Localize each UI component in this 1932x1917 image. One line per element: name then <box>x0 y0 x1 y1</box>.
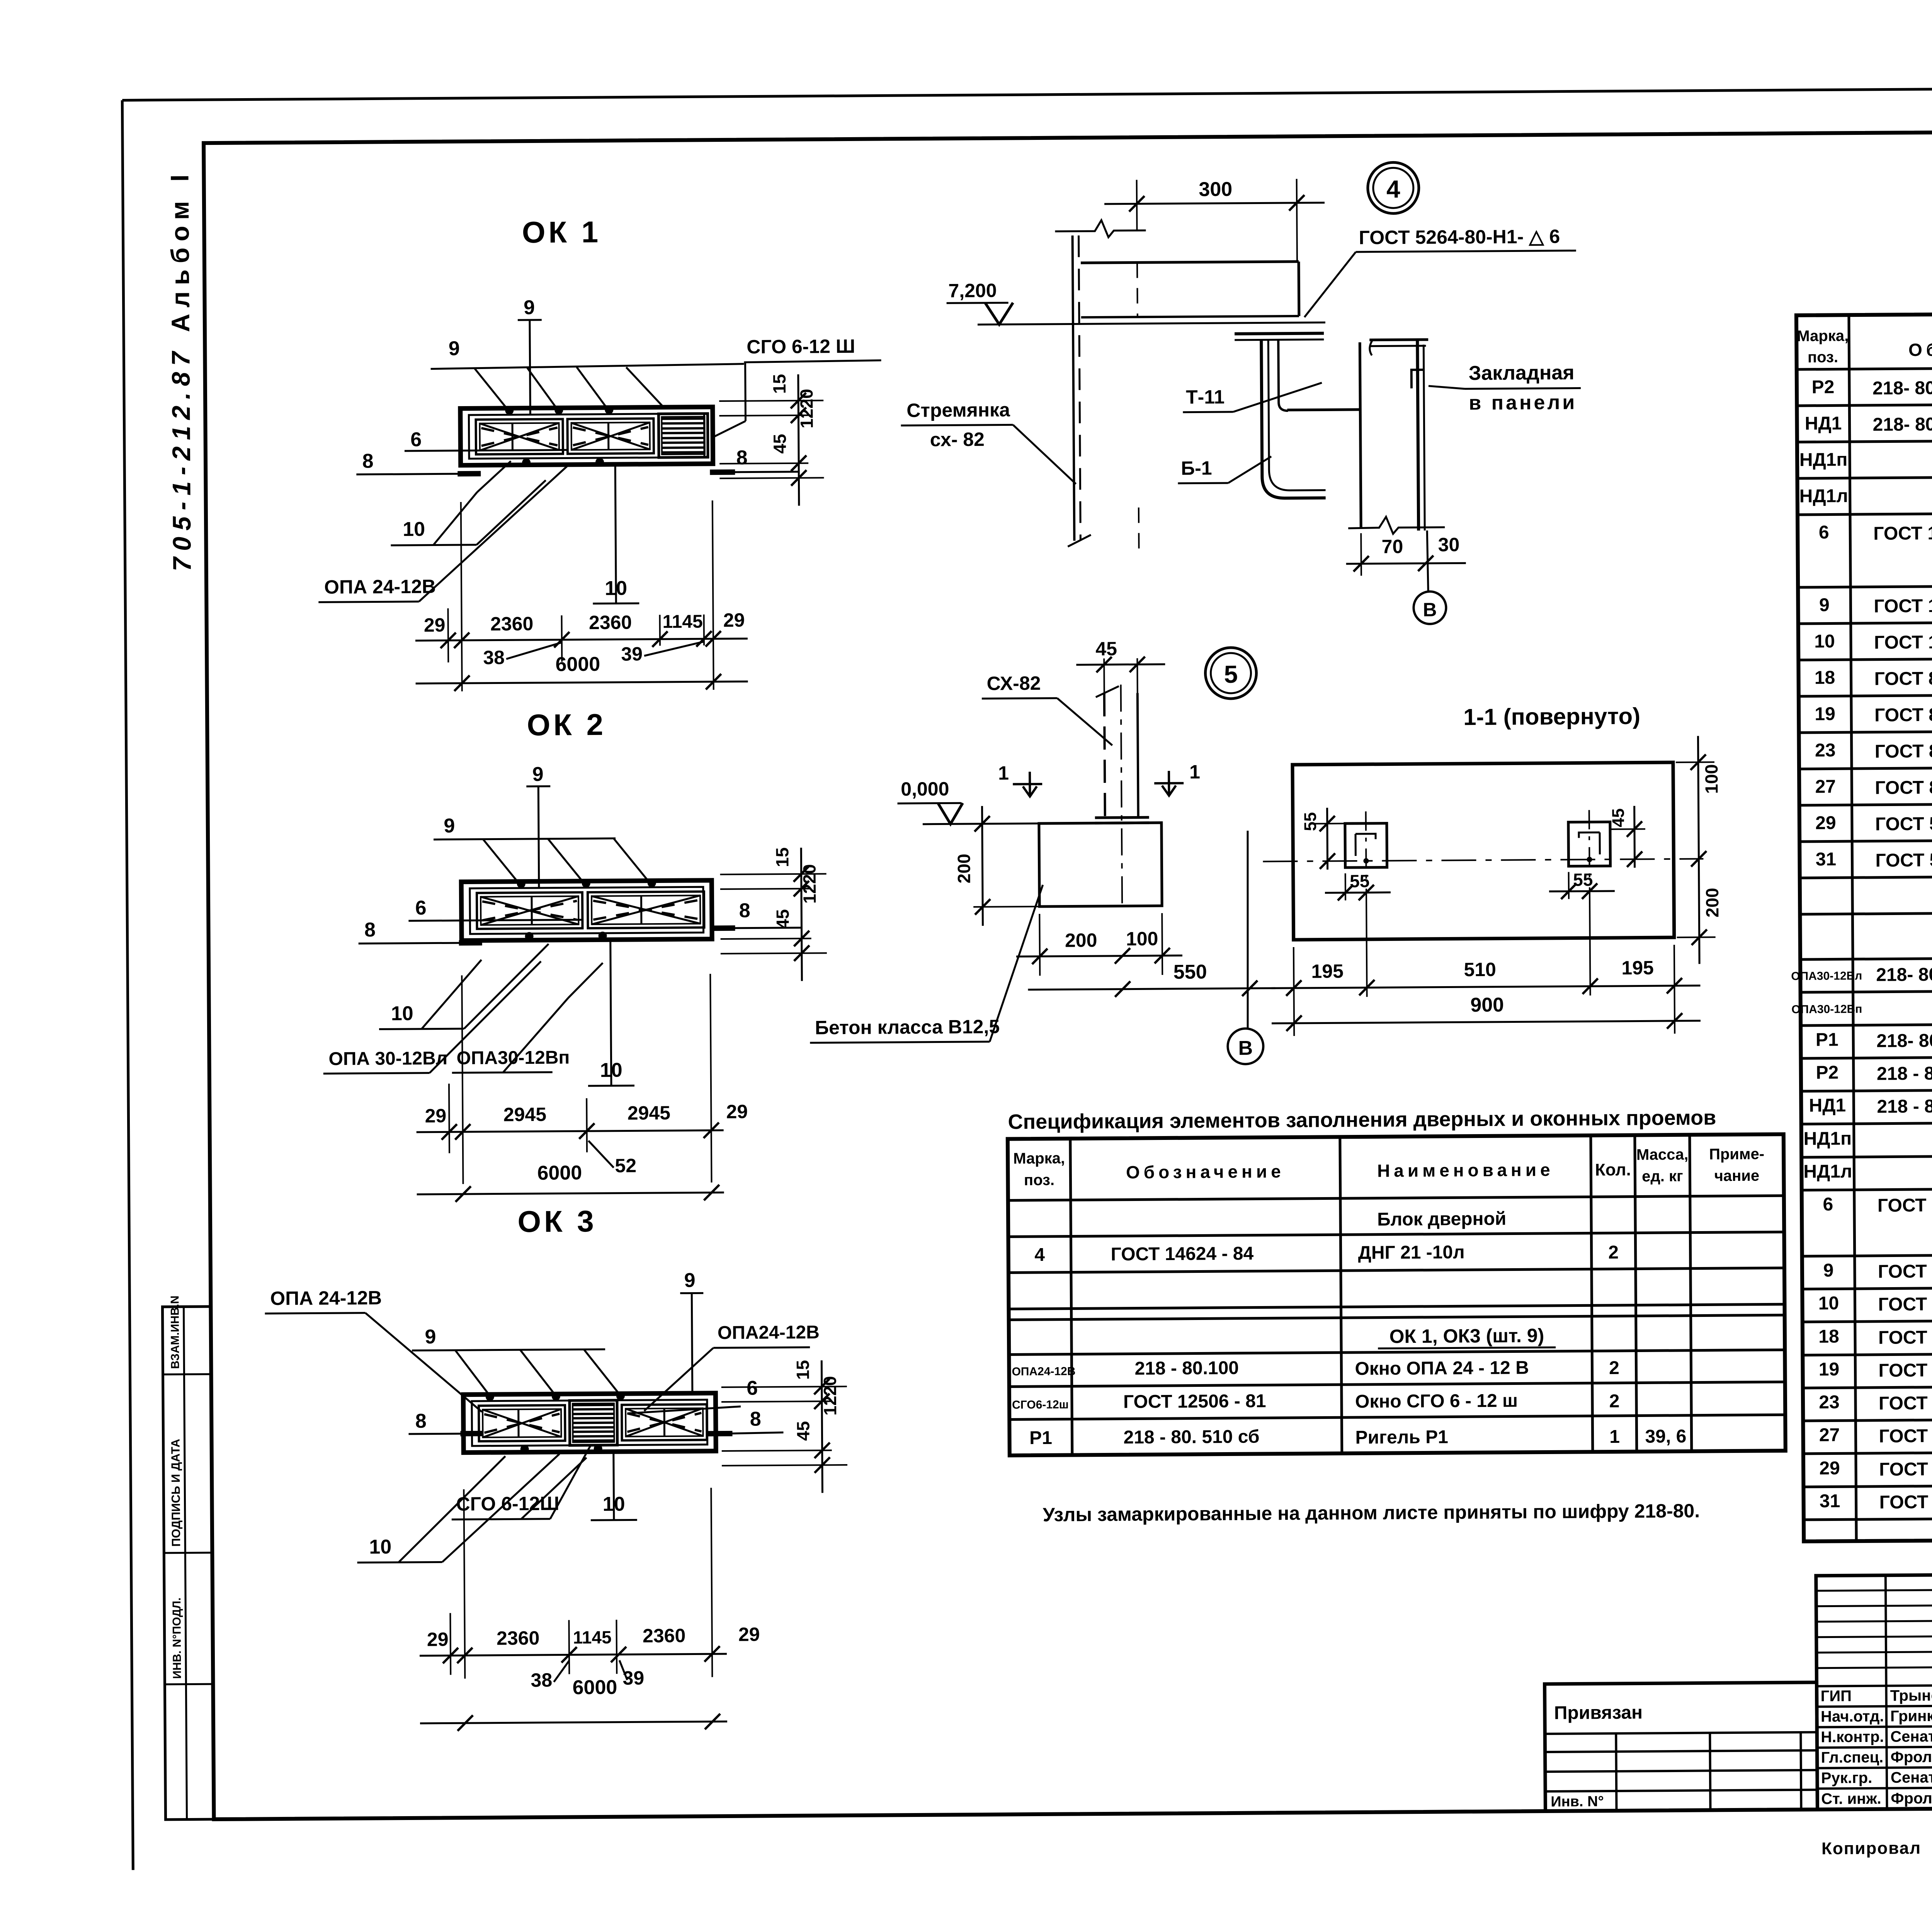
svg-text:55: 55 <box>1350 871 1369 891</box>
svg-text:1: 1 <box>998 762 1009 784</box>
OK3 dimension row 29-2360-1145-2360-29 <box>464 1489 465 1679</box>
OK3 right casement <box>622 1404 707 1440</box>
svg-text:Нач.отд.: Нач.отд. <box>1821 1708 1884 1725</box>
svg-text:Окно ОПА 24 - 12 В: Окно ОПА 24 - 12 В <box>1355 1357 1529 1379</box>
node 5 section line B <box>1247 831 1249 1029</box>
svg-text:СХ-82: СХ-82 <box>986 672 1041 694</box>
svg-text:1220: 1220 <box>796 389 817 429</box>
node 5 post <box>1104 693 1105 818</box>
section 1-1 dim 55 left vertical <box>1313 823 1352 825</box>
svg-text:Ригель Р1: Ригель Р1 <box>1355 1427 1448 1448</box>
svg-text:30: 30 <box>1438 534 1459 555</box>
svg-text:ВЗАМ.ИНВ.N: ВЗАМ.ИНВ.N <box>168 1296 182 1369</box>
OK1 grate window SGO section <box>658 413 708 458</box>
svg-text:9: 9 <box>444 815 455 837</box>
section 1-1 dim 55 left horizontal <box>1345 873 1346 900</box>
node 4 right top plate <box>1369 338 1428 341</box>
svg-text:Р2: Р2 <box>1816 1062 1838 1083</box>
node 4 break line <box>1348 517 1445 534</box>
svg-text:45: 45 <box>1095 638 1117 660</box>
OK1 top fixing ticks <box>505 406 514 415</box>
svg-text:НД1л: НД1л <box>1799 486 1848 507</box>
svg-text:ОК 1, ОК3 (шт. 9): ОК 1, ОК3 (шт. 9) <box>1389 1325 1544 1347</box>
OK2 bottom fixing dots <box>525 932 534 941</box>
OK3 left casement <box>479 1405 565 1441</box>
svg-text:В: В <box>1423 599 1437 621</box>
node 4 wall column lines <box>1073 235 1075 541</box>
svg-text:39: 39 <box>621 643 643 665</box>
svg-text:100: 100 <box>1126 928 1158 950</box>
svg-text:550: 550 <box>1173 961 1207 983</box>
svg-text:ГОСТ 5. 1011- 71: ГОСТ 5. 1011- 71 <box>1875 849 1932 871</box>
svg-text:1220: 1220 <box>820 1376 840 1416</box>
svg-text:6: 6 <box>747 1377 758 1399</box>
svg-text:218- 80.501: 218- 80.501 <box>1872 378 1932 399</box>
svg-text:195: 195 <box>1621 957 1654 979</box>
svg-text:Копировал: Копировал <box>1821 1839 1921 1858</box>
svg-text:Кол.: Кол. <box>1595 1160 1631 1180</box>
svg-text:0,000: 0,000 <box>901 778 949 800</box>
svg-text:6: 6 <box>1823 1194 1833 1214</box>
svg-text:29: 29 <box>427 1628 449 1650</box>
OK3 vertical dims 15 1220 45 <box>721 1386 847 1387</box>
svg-text:Н.контр.: Н.контр. <box>1821 1728 1884 1746</box>
svg-text:ГОСТ 103 - 76*: ГОСТ 103 - 76* <box>1874 595 1932 617</box>
svg-text:Трынов: Трынов <box>1890 1687 1932 1704</box>
svg-text:Стремянка: Стремянка <box>906 399 1010 421</box>
svg-text:6: 6 <box>410 429 422 451</box>
section 1-1 plate outline <box>1293 762 1674 940</box>
svg-text:2360: 2360 <box>589 611 632 633</box>
node 5 post centerline <box>1121 685 1122 910</box>
svg-text:23: 23 <box>1815 740 1836 760</box>
svg-text:Окно СГО 6 - 12 ш: Окно СГО 6 - 12 ш <box>1355 1390 1518 1412</box>
svg-text:6000: 6000 <box>555 653 600 676</box>
svg-text:23: 23 <box>1819 1392 1840 1412</box>
node 4 channel B-1 <box>1261 339 1326 498</box>
svg-text:ГОСТ 5.1011 - 71: ГОСТ 5.1011 - 71 <box>1879 1458 1932 1480</box>
svg-text:9: 9 <box>1823 1260 1833 1281</box>
OK2 top fixing ticks <box>517 879 526 888</box>
svg-text:8: 8 <box>364 919 376 941</box>
node 5 dim 550 <box>1028 988 1275 990</box>
svg-text:Узлы замаркированные на данн: Узлы замаркированные на данном листе при… <box>1043 1500 1700 1526</box>
svg-text:39, 6: 39, 6 <box>1645 1426 1686 1447</box>
svg-text:10: 10 <box>391 1002 413 1025</box>
svg-text:ОК 2: ОК 2 <box>527 708 606 742</box>
svg-text:Р1: Р1 <box>1029 1428 1052 1448</box>
OK1 right casement <box>567 418 654 454</box>
svg-text:4: 4 <box>1386 175 1400 203</box>
title block attachment table <box>1544 1682 1817 1811</box>
section 1-1 overall dim 900 <box>1272 1021 1701 1024</box>
svg-text:ОПА30-12Вл: ОПА30-12Вл <box>1791 970 1862 983</box>
svg-text:Фролова: Фролова <box>1891 1789 1932 1807</box>
OK2 window frame <box>461 880 712 941</box>
svg-text:2360: 2360 <box>643 1625 686 1647</box>
svg-text:27: 27 <box>1815 776 1836 797</box>
svg-text:2: 2 <box>1609 1358 1619 1378</box>
svg-text:Наименование: Наименование <box>1377 1160 1554 1181</box>
node 4 right vertical plate <box>1417 338 1418 531</box>
svg-text:5: 5 <box>1224 660 1238 688</box>
svg-text:ГОСТ 5.1011- 71: ГОСТ 5.1011- 71 <box>1875 813 1932 835</box>
svg-text:1: 1 <box>1189 761 1200 782</box>
side strip divider 1 <box>163 1373 211 1376</box>
main drawing frame <box>204 129 1932 1819</box>
svg-text:ОПА24-12В: ОПА24-12В <box>1012 1365 1075 1378</box>
OK1 left casement <box>476 419 563 454</box>
svg-text:8: 8 <box>739 900 750 922</box>
svg-text:70: 70 <box>1382 536 1403 557</box>
svg-text:9: 9 <box>1819 595 1830 615</box>
node 4 panel rectangle <box>1081 262 1299 263</box>
svg-text:510: 510 <box>1464 959 1496 981</box>
svg-text:ГОСТ 5264-80-Н1- △ 6: ГОСТ 5264-80-Н1- △ 6 <box>1359 226 1560 248</box>
node 4 right angle notch <box>1412 370 1424 388</box>
svg-text:Гринкевич: Гринкевич <box>1890 1707 1932 1725</box>
svg-text:НД1п: НД1п <box>1799 449 1848 470</box>
svg-text:9: 9 <box>532 763 543 786</box>
svg-text:29: 29 <box>723 609 745 631</box>
svg-text:ГОСТ 8242 -75: ГОСТ 8242 -75 <box>1878 1327 1932 1348</box>
svg-text:ОПА 30-12Вл: ОПА 30-12Вл <box>328 1048 447 1069</box>
node 4 callout circle <box>1367 162 1419 214</box>
svg-text:38: 38 <box>483 646 505 668</box>
svg-text:200: 200 <box>1702 888 1722 917</box>
node 5 section circle B <box>1228 1028 1264 1064</box>
svg-text:ГИП: ГИП <box>1821 1687 1852 1704</box>
svg-text:ГОСТ 5. 1011 - 71: ГОСТ 5. 1011 - 71 <box>1879 1491 1932 1512</box>
svg-text:8: 8 <box>736 447 747 469</box>
svg-text:45: 45 <box>770 434 790 454</box>
svg-text:Спецификация элементов заполне: Спецификация элементов заполнения дверны… <box>1008 1106 1716 1133</box>
svg-text:ИНВ. N°ПОДЛ.: ИНВ. N°ПОДЛ. <box>170 1597 184 1679</box>
svg-text:900: 900 <box>1470 994 1504 1017</box>
outer sheet border left <box>122 100 133 1870</box>
title block signature grid <box>1816 1574 1932 1809</box>
side strip divider 2 <box>164 1552 212 1554</box>
section 1-1 left anchor centerline <box>1366 811 1366 885</box>
OK1 window frame <box>460 407 713 465</box>
svg-text:Бетон класса В12,5: Бетон класса В12,5 <box>815 1016 1000 1039</box>
svg-text:Гл.спец.: Гл.спец. <box>1821 1749 1884 1766</box>
svg-text:31: 31 <box>1820 1491 1840 1511</box>
svg-text:45: 45 <box>772 909 793 929</box>
OK2 dimension row 29-2945-2945-29 <box>462 975 463 1184</box>
side strip column box <box>162 1306 214 1820</box>
OK1 vertical dims 15 1220 45 <box>719 400 823 401</box>
svg-text:1: 1 <box>1609 1427 1620 1447</box>
svg-text:29: 29 <box>1819 1458 1840 1478</box>
OK1 bottom fixing dots <box>522 458 531 467</box>
continuation table grid <box>1796 311 1932 1541</box>
svg-text:52: 52 <box>615 1155 636 1176</box>
node 4 tee T-11 lip <box>1278 340 1288 411</box>
svg-text:ГОСТ 8242 - 75: ГОСТ 8242 - 75 <box>1874 704 1932 726</box>
OK3 top fixing ticks <box>486 1393 494 1401</box>
svg-text:ГОСТ 8486 - 66**: ГОСТ 8486 - 66** <box>1879 1425 1932 1446</box>
svg-text:45: 45 <box>793 1421 813 1441</box>
outer sheet border top <box>122 85 1932 100</box>
svg-text:2: 2 <box>1609 1391 1620 1412</box>
svg-text:ГОСТ 8486- 66**: ГОСТ 8486- 66** <box>1875 777 1932 798</box>
svg-text:ОПА 24-12В: ОПА 24-12В <box>270 1287 382 1309</box>
svg-text:ГОСТ 12506 - 81: ГОСТ 12506 - 81 <box>1123 1391 1266 1412</box>
node 4 tee bottom line <box>1287 410 1360 410</box>
svg-text:218 - 80. 501: 218 - 80. 501 <box>1877 1063 1932 1084</box>
node 4 section circle B <box>1413 592 1446 624</box>
svg-text:Р1: Р1 <box>1816 1029 1838 1050</box>
svg-text:2945: 2945 <box>503 1104 547 1126</box>
svg-text:9: 9 <box>425 1326 436 1348</box>
section 1-1 dim 45 right vertical <box>1610 828 1645 830</box>
svg-text:200: 200 <box>954 854 974 883</box>
svg-text:218 - 80.100: 218 - 80.100 <box>1134 1358 1239 1379</box>
svg-text:ГОСТ 14918- 80: ГОСТ 14918- 80 <box>1873 523 1932 544</box>
svg-text:ед. кг: ед. кг <box>1642 1168 1683 1185</box>
OK3 bottom fixing dots <box>520 1445 529 1453</box>
svg-text:Масса,: Масса, <box>1636 1146 1689 1163</box>
svg-text:1145: 1145 <box>573 1627 612 1648</box>
svg-text:поз.: поз. <box>1024 1172 1054 1189</box>
svg-text:ОПА 24-12В: ОПА 24-12В <box>324 576 436 598</box>
svg-text:ГОСТ 14624 - 84: ГОСТ 14624 - 84 <box>1111 1243 1254 1265</box>
svg-text:1-1 (повернуто): 1-1 (повернуто) <box>1463 703 1640 730</box>
svg-text:300: 300 <box>1199 178 1232 201</box>
section 1-1 right dims 100 200 <box>1676 761 1714 763</box>
svg-text:в панели: в панели <box>1469 391 1577 414</box>
node 5 callout circle <box>1205 648 1257 699</box>
svg-text:Сенаторов: Сенаторов <box>1890 1728 1932 1745</box>
svg-text:100: 100 <box>1701 764 1721 794</box>
svg-text:8: 8 <box>362 450 373 472</box>
svg-text:15: 15 <box>769 374 789 394</box>
specification table grid <box>1008 1134 1786 1455</box>
node 5 concrete block <box>1039 823 1162 907</box>
section 1-1 right anchor square <box>1568 822 1611 866</box>
svg-text:4: 4 <box>1034 1245 1045 1265</box>
svg-text:218- 80. 510 сб: 218- 80. 510 сб <box>1876 1030 1932 1051</box>
svg-text:218 - 80. 510 сб: 218 - 80. 510 сб <box>1123 1427 1259 1448</box>
node 4 bottom dim 70 30 <box>1360 533 1362 576</box>
svg-text:Б-1: Б-1 <box>1181 457 1212 479</box>
svg-text:Марка,: Марка, <box>1013 1150 1065 1167</box>
svg-text:Марка,: Марка, <box>1797 327 1849 345</box>
svg-text:ГОСТ 103 - 76*: ГОСТ 103 - 76* <box>1878 1261 1932 1282</box>
section 1-1 dim 55 right horizontal <box>1568 872 1570 899</box>
svg-text:Закладная: Закладная <box>1469 362 1575 385</box>
svg-text:38: 38 <box>531 1669 552 1691</box>
node 4 section line B <box>1427 531 1428 592</box>
OK3 middle grate SGO section <box>570 1400 617 1446</box>
svg-text:ГОСТ 8242-75: ГОСТ 8242-75 <box>1878 1360 1932 1381</box>
svg-text:Т-11: Т-11 <box>1186 386 1225 408</box>
svg-text:2: 2 <box>1608 1242 1619 1263</box>
svg-text:29: 29 <box>738 1623 760 1645</box>
svg-text:2360: 2360 <box>497 1627 540 1649</box>
svg-text:19: 19 <box>1819 1359 1840 1379</box>
node 5 base plate <box>1095 816 1149 819</box>
svg-text:НД1п: НД1п <box>1803 1128 1852 1149</box>
svg-text:55: 55 <box>1573 869 1593 890</box>
svg-text:СГО6-12ш: СГО6-12ш <box>1012 1398 1069 1412</box>
svg-text:45: 45 <box>1609 808 1628 827</box>
svg-text:10: 10 <box>1818 1293 1839 1313</box>
section 1-1 right anchor centerline <box>1589 810 1590 883</box>
node 5 dim 200 left <box>973 823 1043 824</box>
svg-text:ОК 3: ОК 3 <box>517 1204 597 1238</box>
section 1-1 bottom dims 195 510 195 <box>1294 947 1294 1036</box>
svg-text:ОК 1: ОК 1 <box>522 215 602 249</box>
OK2 vertical dims 15 1220 45 <box>720 874 827 874</box>
svg-text:200: 200 <box>1065 929 1097 951</box>
svg-text:ГОСТ 14918- 80: ГОСТ 14918- 80 <box>1878 1195 1932 1216</box>
svg-text:29: 29 <box>425 1105 446 1126</box>
svg-text:705-1-212.87 Альбом I: 705-1-212.87 Альбом I <box>165 168 196 571</box>
svg-text:В: В <box>1238 1037 1253 1060</box>
svg-text:9: 9 <box>684 1269 695 1291</box>
svg-text:218 - 80. 502: 218 - 80. 502 <box>1877 1096 1932 1117</box>
svg-text:8: 8 <box>415 1410 427 1432</box>
svg-text:ОПА30-12Вп: ОПА30-12Вп <box>456 1047 570 1068</box>
OK2 left window casement <box>477 892 583 929</box>
svg-text:ГОСТ 103- 76*: ГОСТ 103- 76* <box>1874 632 1932 653</box>
svg-text:9: 9 <box>524 296 535 319</box>
svg-text:218- 80.300: 218- 80.300 <box>1876 964 1932 985</box>
svg-text:Обозначение: Обозначение <box>1126 1161 1285 1182</box>
svg-text:1145: 1145 <box>662 611 702 632</box>
section 1-1 horizontal centerline <box>1263 859 1703 861</box>
node 4 panel hidden edge <box>1136 262 1138 317</box>
svg-text:15: 15 <box>793 1360 813 1379</box>
svg-text:6000: 6000 <box>572 1676 617 1699</box>
svg-text:НД1: НД1 <box>1805 413 1842 434</box>
node 4 embedded plate top flange <box>1235 333 1324 333</box>
OK3 window frame <box>463 1393 716 1453</box>
svg-text:1220: 1220 <box>799 864 820 904</box>
svg-text:6: 6 <box>1819 522 1829 543</box>
svg-text:чание: чание <box>1714 1167 1760 1185</box>
svg-text:10: 10 <box>1814 631 1835 651</box>
svg-text:ОПА30-12Вп: ОПА30-12Вп <box>1791 1003 1862 1016</box>
svg-text:195: 195 <box>1311 960 1344 982</box>
svg-text:31: 31 <box>1816 849 1837 869</box>
node 5 bottom dims 200 100 <box>1039 914 1041 976</box>
svg-text:ПОДПИСЬ И ДАТА: ПОДПИСЬ И ДАТА <box>169 1439 183 1546</box>
svg-text:Сенаторов: Сенаторов <box>1891 1769 1932 1786</box>
svg-text:НД1л: НД1л <box>1803 1161 1852 1182</box>
svg-text:10: 10 <box>403 518 425 541</box>
node 4 wall top break line <box>1055 220 1146 237</box>
svg-text:10: 10 <box>369 1536 391 1558</box>
svg-text:29: 29 <box>726 1101 748 1123</box>
section 1-1 left anchor square <box>1345 823 1387 867</box>
svg-text:19: 19 <box>1815 704 1835 724</box>
OK2 right window casement <box>588 891 704 928</box>
svg-text:8: 8 <box>750 1408 761 1430</box>
svg-text:ОПА24-12В: ОПА24-12В <box>718 1322 820 1343</box>
svg-text:Обозначение: Обозначение <box>1908 339 1932 360</box>
svg-text:Р2: Р2 <box>1811 377 1834 397</box>
svg-text:Привязан: Привязан <box>1554 1702 1643 1723</box>
svg-text:ГОСТ 8486 - 66**: ГОСТ 8486 - 66** <box>1879 1392 1932 1414</box>
svg-text:ДНГ 21 -10л: ДНГ 21 -10л <box>1358 1242 1464 1263</box>
svg-text:сх- 82: сх- 82 <box>930 429 985 451</box>
svg-text:18: 18 <box>1815 667 1835 688</box>
svg-text:ГОСТ 8486 - 66**: ГОСТ 8486 - 66** <box>1875 740 1932 762</box>
svg-text:2945: 2945 <box>628 1102 671 1124</box>
svg-text:ГОСТ 103 - 76*: ГОСТ 103 - 76* <box>1878 1294 1932 1315</box>
svg-text:СГО 6-12 Ш: СГО 6-12 Ш <box>747 335 855 358</box>
svg-text:6000: 6000 <box>537 1162 582 1184</box>
svg-text:Рук.гр.: Рук.гр. <box>1821 1769 1872 1787</box>
svg-text:ГОСТ 8242 -75: ГОСТ 8242 -75 <box>1874 668 1932 689</box>
svg-text:55: 55 <box>1301 812 1320 831</box>
svg-text:29: 29 <box>1815 813 1836 833</box>
svg-text:2360: 2360 <box>490 613 534 635</box>
side strip divider 3 <box>165 1683 213 1686</box>
node 4 inner panel edge <box>1360 342 1361 528</box>
svg-text:Фролова: Фролова <box>1891 1748 1932 1766</box>
svg-text:7,200: 7,200 <box>948 280 997 302</box>
node 4 level line 7.200 <box>978 322 1325 324</box>
svg-text:Ст. инж.: Ст. инж. <box>1821 1790 1881 1808</box>
svg-text:6: 6 <box>415 897 427 919</box>
svg-text:Блок дверной: Блок дверной <box>1377 1209 1507 1230</box>
svg-text:9: 9 <box>449 337 460 360</box>
svg-text:поз.: поз. <box>1808 349 1838 366</box>
svg-text:29: 29 <box>424 614 446 636</box>
OK1 dimension row 29-2360-2360-1145-29 <box>461 502 462 691</box>
svg-text:218- 80.502: 218- 80.502 <box>1872 414 1932 435</box>
svg-text:Приме-: Приме- <box>1709 1146 1764 1163</box>
svg-text:27: 27 <box>1819 1425 1840 1445</box>
svg-text:Инв. N°: Инв. N° <box>1551 1793 1604 1810</box>
svg-text:15: 15 <box>772 847 792 867</box>
svg-text:НД1: НД1 <box>1809 1095 1846 1116</box>
svg-text:18: 18 <box>1818 1326 1839 1347</box>
svg-text:СГО 6-12Ш: СГО 6-12Ш <box>456 1493 559 1515</box>
